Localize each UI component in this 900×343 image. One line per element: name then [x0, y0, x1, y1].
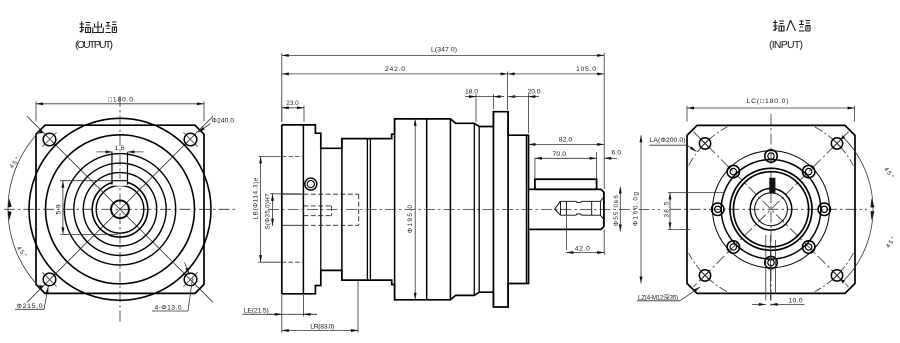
45deg arc dim: [843, 137, 873, 281]
dim L(347.0): [282, 53, 604, 189]
label output (CJK faked): [80, 22, 117, 33]
bolt hole top-left: [43, 133, 197, 286]
svg-text:L(347.0): L(347.0): [431, 46, 457, 53]
flange right face: [302, 125, 304, 294]
diagonal dash-dot 1: [694, 132, 849, 287]
dim 23.0: [282, 106, 304, 123]
svg-text:Φ160.0g: Φ160.0g: [632, 192, 639, 226]
svg-text:38.5: 38.5: [663, 201, 670, 217]
corner hole X ticks: [700, 138, 842, 280]
circle bore S: [750, 189, 792, 231]
hidden input bore: [282, 194, 359, 225]
dim LB phi114.3: [259, 157, 304, 263]
keyway slot lines: [112, 152, 128, 184]
svg-text:Φ55.0k6: Φ55.0k6: [613, 195, 620, 226]
neck face joint: [320, 133, 322, 285]
set screw hole: [305, 178, 317, 190]
centerline vertical: [770, 114, 772, 308]
step face 1: [449, 119, 451, 300]
dim 59: [60, 181, 118, 235]
dim phi195: [414, 119, 416, 300]
dim 6.0: [604, 157, 617, 159]
dim phi55 k6: [619, 187, 621, 232]
svg-text:LR(83.0): LR(83.0): [310, 323, 334, 330]
circle phi80: [83, 173, 156, 246]
dim phi160 g: [640, 135, 642, 283]
svg-text:S(Φ35.0)H7: S(Φ35.0)H7: [265, 193, 272, 230]
dim 82.0: [528, 143, 604, 145]
svg-text:242.0: 242.0: [385, 66, 405, 73]
dim 4-phi13 leader: [152, 263, 193, 312]
svg-text:105.0: 105.0: [576, 66, 596, 73]
internal tapped hole in shaft: [555, 197, 604, 219]
dim 42.0: [566, 216, 604, 255]
right flange left face: [492, 112, 494, 307]
boss joint line: [525, 135, 527, 283]
svg-text:42.0: 42.0: [575, 246, 590, 253]
keyway cutout: [113, 179, 127, 186]
dim LR(83.0): [282, 281, 358, 333]
svg-text:(INPUT): (INPUT): [769, 39, 803, 51]
circle phi33: [755, 193, 788, 226]
body left face: [394, 119, 396, 300]
svg-text:45°: 45°: [886, 236, 898, 250]
svg-text:10.0: 10.0: [789, 297, 803, 304]
dim phi215 leader: [15, 286, 48, 309]
dim 10.0: [752, 303, 805, 305]
dim 16 key width: [97, 151, 144, 153]
bolt hole tick marks: [42, 132, 197, 286]
joint before flange: [478, 127, 480, 293]
diagonal phantom line 2: [27, 116, 213, 302]
right flange right face: [507, 112, 509, 307]
step face 2: [473, 123, 475, 295]
cyl2 left face: [341, 139, 343, 281]
dim 20.0: [508, 94, 539, 133]
label LZ(4-M12x35): [637, 287, 700, 301]
dim 18.0: [465, 94, 504, 122]
dim S phi35 H7: [270, 194, 301, 226]
ring of 8 socket screws on LB circle: [712, 150, 831, 269]
centerline horizontal: [670, 208, 867, 210]
svg-text:4-Φ13.0: 4-Φ13.0: [155, 305, 182, 312]
circle phi50: [96, 186, 144, 234]
svg-text:LE(21.5): LE(21.5): [244, 308, 269, 315]
body joint: [426, 119, 428, 300]
svg-text:70.0: 70.0: [553, 151, 567, 158]
svg-text:18.0: 18.0: [465, 88, 478, 95]
svg-text:LB(Φ114.3)e: LB(Φ114.3)e: [253, 177, 260, 220]
svg-text:23.0: 23.0: [286, 100, 299, 107]
circle shaft phi55: [92, 182, 148, 238]
dim LC(180): [687, 106, 855, 122]
svg-text:20.0: 20.0: [528, 88, 541, 95]
dim 38.5: [668, 193, 723, 230]
svg-text:Φ240.0: Φ240.0: [212, 117, 235, 124]
svg-text:LA(Φ200.0): LA(Φ200.0): [650, 137, 686, 144]
keyway slot: [769, 178, 775, 194]
dim 105.0: [508, 73, 605, 75]
shaft end face: [603, 192, 605, 226]
circle phi160: [46, 135, 195, 284]
cyl2 joint double: [366, 139, 368, 281]
circle boss inner: [733, 172, 808, 247]
circle phi120: [64, 154, 175, 265]
svg-text:45°: 45°: [882, 167, 894, 181]
svg-text:82.0: 82.0: [559, 137, 573, 144]
phantom arc phi240 with 45deg arrows: [8, 130, 41, 288]
boss right face: [527, 135, 529, 283]
circle phi100: [74, 163, 166, 255]
svg-text:LZ(4-M12深35): LZ(4-M12深35): [638, 292, 678, 301]
label input (CJK faked): [773, 20, 810, 31]
body outline bottom profile (mirror): [282, 209, 604, 307]
label LA(phi200): [650, 145, 697, 151]
centerline: [268, 208, 660, 210]
square flange outline: [687, 125, 855, 293]
centerline horizontal: [4, 208, 236, 210]
diagonal dash-dot 2: [694, 132, 849, 287]
circle body phi195: [29, 118, 211, 300]
centerline vertical: [119, 96, 121, 324]
circle center tap: [111, 200, 129, 218]
dim phi240 leader: [198, 124, 210, 133]
key on shaft (outline): [535, 179, 597, 189]
corner hole TL: [699, 138, 842, 281]
body outline top profile: [282, 112, 604, 210]
diagonal phantom line 1: [27, 116, 213, 302]
circle boss outer: [730, 168, 812, 250]
flange left face: [281, 125, 283, 294]
dim 70.0: [535, 152, 597, 179]
dim 242.0: [282, 72, 508, 111]
bolt circle phi200 dash-dot corner arcs: [689, 127, 854, 292]
svg-text:(OUTPUT): (OUTPUT): [75, 39, 113, 51]
svg-text:Φ215.0: Φ215.0: [17, 303, 43, 310]
circle phi125: [713, 151, 830, 268]
dim LE(21.5): [243, 295, 318, 317]
svg-text:6.0: 6.0: [612, 150, 622, 157]
dim 180 square: [36, 102, 204, 122]
svg-text:□180.0: □180.0: [108, 97, 133, 104]
svg-text:Φ195.0: Φ195.0: [407, 205, 414, 233]
square flange outline: [36, 125, 204, 293]
keyway bottom reference lines: [765, 235, 767, 301]
svg-text:LC(□180.0): LC(□180.0): [747, 98, 789, 105]
circle pilot phi106: [721, 160, 821, 260]
